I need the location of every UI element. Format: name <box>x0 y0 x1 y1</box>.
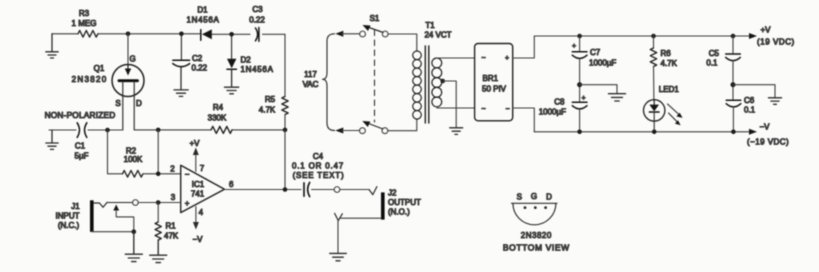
node pin3/R1 junction <box>156 200 161 205</box>
svg-text:(N.C.): (N.C.) <box>58 221 80 230</box>
wire -V rail <box>534 131 752 133</box>
capacitor C4 <box>304 182 310 196</box>
wire J1 sleeve <box>92 231 134 233</box>
svg-text:24 VCT: 24 VCT <box>424 31 451 40</box>
svg-text:+V: +V <box>760 26 771 35</box>
svg-text:G: G <box>130 55 136 64</box>
2N3820 package bottom view <box>512 203 558 225</box>
wire C3 to R5 <box>284 34 286 96</box>
svg-text:C4: C4 <box>313 152 324 161</box>
wire pin2 <box>143 173 181 175</box>
svg-text:Q1: Q1 <box>94 64 105 73</box>
svg-text:3: 3 <box>171 193 176 202</box>
pin 7 +V arrow <box>195 152 197 172</box>
svg-text:+: + <box>185 199 190 208</box>
svg-text:0.22: 0.22 <box>249 16 265 25</box>
switch S1 bottom pole <box>360 128 388 134</box>
svg-text:0.1: 0.1 <box>744 106 756 115</box>
node R5 bottom junction <box>283 128 288 133</box>
op-amp U1 triangle <box>181 165 225 212</box>
jack J2 <box>369 187 377 195</box>
svg-text:J1: J1 <box>71 202 80 211</box>
resistor R5 <box>282 97 288 115</box>
svg-text:2: 2 <box>170 165 175 174</box>
wire C1 row left <box>49 129 123 131</box>
wire AC top w/ arrow <box>335 31 343 37</box>
svg-text:−V: −V <box>192 235 203 244</box>
T1 core <box>425 46 429 123</box>
ground (J2) <box>330 253 347 260</box>
transistor Q1 <box>112 65 144 97</box>
svg-text:(SEE TEXT): (SEE TEXT) <box>293 171 345 180</box>
package pin labels <box>517 192 552 202</box>
jack J1 <box>90 200 94 232</box>
svg-text:BR1: BR1 <box>483 74 499 83</box>
117 VAC source brace <box>323 34 335 131</box>
ground (left of R3) <box>46 34 58 58</box>
node C5/C6 mid junction <box>731 82 736 87</box>
-V arrowhead <box>749 129 757 135</box>
resistor R2 <box>123 171 143 178</box>
svg-text:C3: C3 <box>252 5 263 14</box>
svg-text:R4: R4 <box>213 103 224 112</box>
node C6 bottom <box>731 130 736 135</box>
svg-text:1N456A: 1N456A <box>186 16 219 25</box>
svg-text:0.22: 0.22 <box>192 64 208 73</box>
svg-text:50 PIV: 50 PIV <box>482 85 507 94</box>
node C5 top <box>731 34 736 39</box>
wire center tap <box>443 81 457 128</box>
wire S1 to T1 primary <box>388 34 417 131</box>
rectifier BR1 <box>475 44 513 121</box>
svg-text:−: − <box>506 106 510 113</box>
svg-text:5µF: 5µF <box>75 152 89 161</box>
wire C7 bottom <box>579 59 581 102</box>
svg-text:OUTPUT: OUTPUT <box>388 198 421 207</box>
svg-text:~: ~ <box>482 106 486 113</box>
node pin2 junction <box>156 172 161 177</box>
svg-text:C7: C7 <box>590 48 601 57</box>
capacitor C1 <box>77 123 87 138</box>
svg-text:4: 4 <box>199 208 204 217</box>
svg-text:G: G <box>531 192 537 201</box>
svg-text:D2: D2 <box>241 56 252 65</box>
svg-text:T1: T1 <box>425 21 435 30</box>
node gate junction <box>126 32 131 37</box>
transformer T1 secondary <box>432 58 442 107</box>
wire mid to ground right <box>733 85 775 98</box>
svg-text:741: 741 <box>191 190 205 199</box>
svg-text:4.7K: 4.7K <box>661 59 678 68</box>
wire C8 bottom <box>579 109 581 132</box>
svg-text:1000µF: 1000µF <box>589 59 616 68</box>
wire J2 ground drop <box>337 221 339 254</box>
node filter mid junction <box>577 82 582 87</box>
capacitor C3 <box>255 28 259 42</box>
resistor R1 <box>155 222 161 240</box>
svg-text:D: D <box>136 99 142 108</box>
svg-text:330K: 330K <box>208 114 227 123</box>
svg-text:4.7K: 4.7K <box>259 106 276 115</box>
svg-text:1 MEG: 1 MEG <box>72 19 97 28</box>
wire pin3 <box>138 202 181 204</box>
diode D1 <box>200 30 202 41</box>
svg-text:VAC: VAC <box>303 80 319 89</box>
ground (C1 input) <box>46 130 58 149</box>
svg-text:6: 6 <box>229 180 234 189</box>
wire drain to pin2 <box>157 130 159 174</box>
svg-text:S: S <box>517 193 522 202</box>
svg-text:2N3820: 2N3820 <box>72 75 108 84</box>
node center tap <box>440 79 445 84</box>
pin 3 label <box>171 193 176 202</box>
svg-text:+V: +V <box>189 139 200 148</box>
diode D2 <box>231 34 233 58</box>
wire C6 bottom <box>732 107 734 132</box>
LED1 <box>644 100 665 121</box>
pin 6 label <box>229 180 234 189</box>
wire secondary top <box>437 57 475 59</box>
svg-text:0.1 OR 0.47: 0.1 OR 0.47 <box>292 162 344 171</box>
svg-text:R6: R6 <box>661 49 672 58</box>
svg-text:C1: C1 <box>75 142 86 151</box>
node C7 top <box>577 34 582 39</box>
ground (C5/C6 mid) <box>768 98 781 105</box>
ground (C7/C8 mid) <box>609 94 626 101</box>
svg-text:+: + <box>505 55 509 62</box>
capacitor C7 <box>579 36 581 52</box>
node pin2 drop junction <box>156 128 161 133</box>
node D2 junction <box>229 32 234 37</box>
svg-text:1N456A: 1N456A <box>241 65 274 74</box>
svg-text:J2: J2 <box>388 189 397 198</box>
svg-text:IC1: IC1 <box>192 180 205 189</box>
svg-text:LED1: LED1 <box>659 85 680 94</box>
J2 tip open circle <box>334 187 339 192</box>
svg-text:C2: C2 <box>192 54 203 63</box>
pin 4 -V arrow <box>195 207 197 225</box>
svg-text:C5: C5 <box>709 49 720 58</box>
wire mid to ground <box>580 85 617 94</box>
svg-text:(19 VDC): (19 VDC) <box>757 38 795 47</box>
svg-text:INPUT: INPUT <box>56 212 80 221</box>
svg-text:S1: S1 <box>370 14 380 23</box>
node S/R2 junction <box>105 128 110 133</box>
wire BR1 + output <box>513 36 535 58</box>
node C8 bottom <box>577 130 582 135</box>
svg-text:+: + <box>582 95 586 102</box>
wire BR1 - output <box>513 108 535 132</box>
wire drain row <box>134 129 285 131</box>
wire gate <box>127 34 129 65</box>
node J1 ground junction <box>132 229 137 234</box>
wire R2 branch <box>108 130 123 174</box>
svg-text:NON-POLARIZED: NON-POLARIZED <box>45 110 116 120</box>
svg-text:7: 7 <box>200 164 205 173</box>
wire +V rail <box>534 35 752 37</box>
capacitor C2 <box>180 34 182 60</box>
resistor R3 <box>78 30 98 37</box>
ground (below R1) <box>150 240 167 263</box>
wire feedback drop <box>284 130 286 190</box>
node output junction <box>283 187 288 192</box>
LED emission arrows <box>668 104 680 123</box>
svg-text:0.1: 0.1 <box>706 59 718 68</box>
svg-text:R5: R5 <box>265 95 276 104</box>
capacitor C6 <box>726 100 741 107</box>
ground (center tap) <box>450 128 463 135</box>
svg-text:S: S <box>115 99 120 108</box>
wire top-left rail <box>52 33 285 36</box>
svg-text:47K: 47K <box>164 232 179 241</box>
svg-text:100K: 100K <box>124 155 143 164</box>
wire R5 bottom <box>284 115 286 131</box>
package pin dots <box>524 206 547 209</box>
resistor R4 <box>211 126 232 133</box>
svg-text:2N3820: 2N3820 <box>521 231 552 240</box>
+V arrowhead <box>749 33 757 39</box>
svg-text:BOTTOM VIEW: BOTTOM VIEW <box>503 243 570 253</box>
wire R6 to LED <box>653 67 655 100</box>
svg-text:−V: −V <box>759 123 770 132</box>
resistor R6 <box>653 36 655 48</box>
svg-text:(N.O.): (N.O.) <box>388 208 410 217</box>
svg-text:C6: C6 <box>744 96 755 105</box>
transformer T1 primary <box>413 51 422 119</box>
svg-text:C8: C8 <box>554 98 565 107</box>
capacitor C8 <box>572 102 587 109</box>
svg-text:−: − <box>185 170 190 179</box>
J1 tip open circle <box>133 200 138 205</box>
ground (J1 sleeve) <box>125 232 142 262</box>
capacitor C5 <box>732 36 734 54</box>
svg-text:(−19 VDC): (−19 VDC) <box>747 138 789 147</box>
wire op-amp output <box>225 189 302 191</box>
svg-text:R3: R3 <box>79 9 90 18</box>
node C2 junction <box>179 32 184 37</box>
svg-text:D1: D1 <box>197 6 208 15</box>
node R6 top <box>651 34 656 39</box>
svg-text:D: D <box>546 193 552 202</box>
wire AC bottom w/ arrow <box>335 128 343 134</box>
svg-text:R1: R1 <box>166 222 177 231</box>
wire secondary bottom <box>437 107 475 108</box>
S1 gang dashed link <box>374 30 376 122</box>
wire C5 bottom <box>732 61 734 100</box>
package caption <box>503 231 570 253</box>
pin 2 label <box>170 165 175 174</box>
switch S1 top pole <box>360 31 388 37</box>
svg-text:117: 117 <box>304 70 317 79</box>
wire C4 to J2 <box>312 189 370 191</box>
svg-text:+: + <box>572 43 576 50</box>
ground (below C2) <box>174 68 188 97</box>
node LED bottom <box>652 130 657 135</box>
J1 switch contact arrow <box>113 205 119 211</box>
svg-text:~: ~ <box>482 55 486 62</box>
svg-text:1000µF: 1000µF <box>539 108 566 117</box>
J2 sleeve contact <box>335 213 343 220</box>
wire R1 branch <box>157 203 159 223</box>
ground (below D2) <box>225 69 239 94</box>
